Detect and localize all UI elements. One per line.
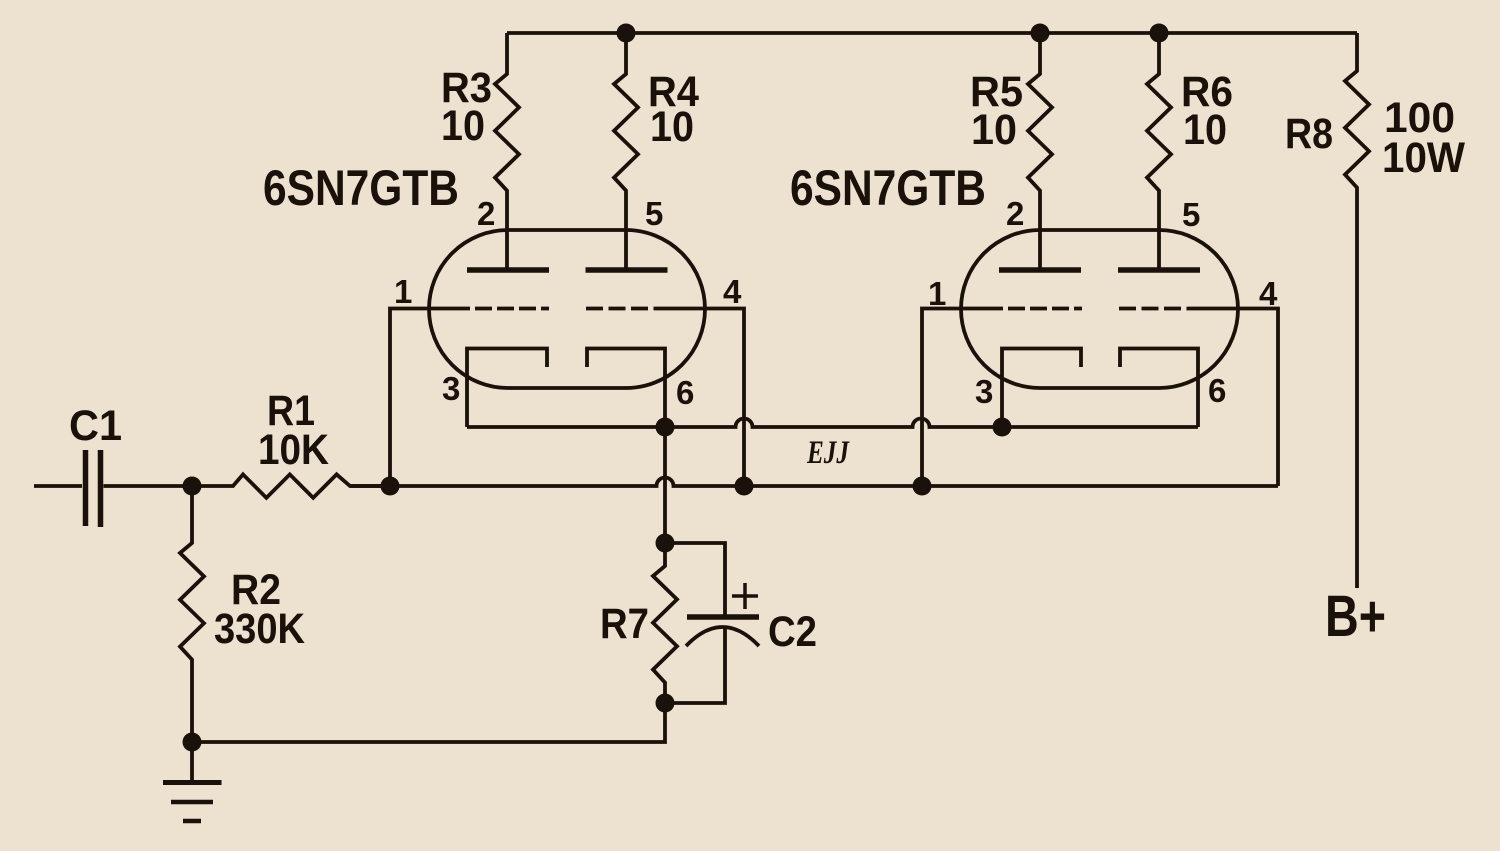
junction dot top bus R5 <box>1031 24 1050 43</box>
resistor R2 <box>180 486 204 742</box>
svg-text:3: 3 <box>442 370 460 407</box>
tube U2 cathode right (pin 6) <box>1120 349 1198 428</box>
wire input stub <box>34 484 82 488</box>
wire cathode bus with hops <box>467 419 1002 428</box>
svg-text:5: 5 <box>1182 196 1200 233</box>
junction dot U2 pin1 grid bus <box>913 477 932 496</box>
junction dot R7 top <box>656 534 675 553</box>
junction dot U1 pin4 grid bus <box>735 477 754 496</box>
tube U2 cathode left (pin 3) <box>1002 349 1081 428</box>
resistor R4 <box>614 33 638 270</box>
svg-text:R7: R7 <box>600 600 649 648</box>
wire U2 pin 1 to grid bus <box>922 309 1003 487</box>
wire top B+ bus <box>507 31 1357 35</box>
wire C1 to R1 node <box>104 484 193 488</box>
svg-text:10: 10 <box>441 102 485 150</box>
wire U2 pin 4 to grid bus <box>1199 309 1278 487</box>
junction dot C1/R2 node <box>183 477 202 496</box>
junction dot R2 bottom / ground <box>183 733 202 752</box>
tube U2 envelope <box>961 230 1238 388</box>
capacitor C2 curved plate <box>686 627 759 646</box>
tube U2 plate (pin 5) <box>1118 267 1200 273</box>
tube U2 grid dashes right <box>1119 307 1199 311</box>
plus sign C2 <box>732 583 758 609</box>
capacitor C1 <box>86 450 101 527</box>
junction dot top bus R4 <box>617 24 636 43</box>
capacitor C2 plate + <box>687 614 759 620</box>
svg-text:10W: 10W <box>1382 134 1465 182</box>
tube U1 grid dashes left <box>475 307 549 311</box>
svg-text:1: 1 <box>394 273 412 310</box>
svg-text:10: 10 <box>650 103 694 151</box>
svg-text:6: 6 <box>676 374 694 411</box>
svg-text:5: 5 <box>645 195 663 232</box>
svg-text:3: 3 <box>975 373 993 410</box>
wire C2 top branch <box>665 543 725 615</box>
tube U1 cathode left (pin 3) <box>467 349 547 428</box>
junction dot top bus R6 <box>1150 24 1169 43</box>
svg-text:4: 4 <box>1259 275 1278 312</box>
resistor R6 <box>1147 33 1171 270</box>
svg-text:10: 10 <box>971 106 1017 154</box>
tube U1 plate (pin 2) <box>467 267 549 273</box>
resistor R5 <box>1028 33 1052 270</box>
tube U2 grid dashes left <box>1008 307 1082 311</box>
svg-text:1: 1 <box>928 275 946 312</box>
svg-text:EJJ: EJJ <box>806 435 850 471</box>
svg-text:10: 10 <box>1183 106 1227 154</box>
svg-text:C2: C2 <box>768 608 817 656</box>
svg-text:C1: C1 <box>69 402 122 450</box>
resistor R3 <box>495 33 519 270</box>
tube U1 cathode right (pin 6) <box>587 349 665 428</box>
ground <box>163 742 222 821</box>
wire ground bus <box>192 703 665 742</box>
svg-text:6SN7GTB: 6SN7GTB <box>790 160 986 216</box>
wire grid bus with hop <box>350 478 1278 487</box>
svg-text:2: 2 <box>477 195 495 232</box>
tube U1 envelope <box>429 230 705 388</box>
svg-text:4: 4 <box>723 273 742 310</box>
tube U2 plate (pin 2) <box>999 267 1081 273</box>
junction dot U1 cathode <box>656 418 675 437</box>
svg-text:2: 2 <box>1006 195 1024 232</box>
svg-text:6: 6 <box>1208 372 1226 409</box>
resistor R1 <box>192 474 390 497</box>
junction dot R7 bottom <box>656 694 675 713</box>
resistor R8 <box>1345 33 1369 588</box>
wire cathode node down to R7 <box>663 427 667 543</box>
svg-text:330K: 330K <box>214 605 305 653</box>
resistor R7 <box>653 543 677 703</box>
svg-text:B+: B+ <box>1325 584 1386 649</box>
svg-text:R8: R8 <box>1285 110 1333 158</box>
svg-text:6SN7GTB: 6SN7GTB <box>263 160 459 216</box>
wire U1 pin 1 to grid bus <box>390 309 470 487</box>
tube U1 plate (pin 5) <box>586 267 668 273</box>
wire U1 pin 4 to grid bus <box>666 309 744 487</box>
tube U1 grid dashes right <box>586 307 666 311</box>
wire U2 cathode bottom <box>1002 425 1198 429</box>
junction dot U2 cathode <box>993 418 1012 437</box>
junction dot R1 right node <box>381 477 400 496</box>
wire C2 bottom branch <box>665 629 725 703</box>
svg-text:10K: 10K <box>258 426 329 474</box>
